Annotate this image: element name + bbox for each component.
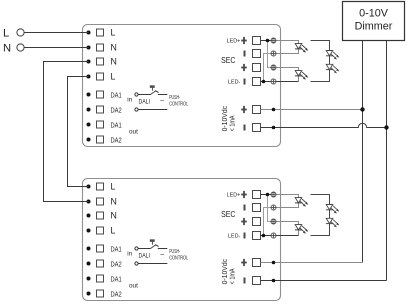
label 0-10Vdc &lt;1mA U2: [222, 258, 236, 284]
svg-text:out: out: [129, 128, 138, 135]
wire SEC- sense link U1: [264, 54, 272, 82]
terminal square SEC+ U1: [253, 64, 261, 72]
svg-text:DA2: DA2: [111, 259, 122, 268]
polarity marks LED/SEC/dim U2: [241, 191, 247, 284]
wire parallel LED string bottom stub U1: [311, 70, 330, 82]
terminal DA1 (left row 5) module U1: [87, 90, 122, 99]
output connector circle LED+ U2: [271, 192, 276, 197]
terminal DA1 (left row 7) module U1: [87, 120, 122, 129]
svg-text:DA2: DA2: [111, 289, 122, 298]
wire LED- connector to below chain B U2: [276, 235, 299, 237]
terminal square 0-10V - U1: [253, 124, 261, 132]
wire SEC+ connector to LED chain B U2: [276, 222, 299, 225]
terminal L (left row 4) module U1: [87, 72, 116, 82]
wire N input to module U1: [24, 47, 89, 49]
wire SEC+ sense link U2: [268, 195, 272, 222]
wire LED+ terminal to connector U1: [261, 40, 272, 42]
wire connector LED+ to LED chain A U2: [276, 195, 299, 198]
svg-text:DALI: DALI: [139, 98, 151, 105]
junction dot U2 dim+: [272, 261, 276, 265]
wire L input to module U1: [24, 32, 89, 34]
svg-text:L: L: [111, 28, 116, 38]
node L input circle: [17, 29, 24, 36]
0-10V dimmer box: [343, 2, 405, 41]
svg-text:DA1: DA1: [111, 90, 122, 99]
push-control switch S2 (DALI in): [135, 240, 167, 266]
svg-text:L: L: [111, 226, 116, 236]
output connector circle SEC- U1: [271, 51, 276, 56]
wire SEC+ connector to LED chain B U1: [276, 68, 299, 71]
svg-text:DA1: DA1: [111, 274, 122, 283]
wire parallel LED string top stub U1: [311, 41, 330, 51]
svg-text:N: N: [111, 197, 117, 207]
svg-text:LED-: LED-: [228, 80, 240, 86]
svg-text:< 1mA: < 1mA: [229, 115, 236, 131]
svg-text:PUSH-: PUSH-: [169, 249, 180, 255]
terminal L (left row 1) module U2: [87, 182, 116, 192]
svg-text:0-10Vdc: 0-10Vdc: [222, 105, 229, 131]
wire dimmer - bus (vertical): [386, 41, 388, 281]
svg-text:DA1: DA1: [111, 120, 122, 129]
label 0-10Vdc &lt;1mA U1: [222, 105, 236, 131]
junction dot dim- bus: [384, 125, 388, 129]
wire LED chain B cathode down to LED- wire U2: [298, 230, 300, 236]
terminal square LED+ U1: [253, 37, 261, 45]
svg-text:LED+: LED+: [227, 39, 241, 45]
polarity marks LED/SEC/dim U1: [241, 37, 247, 131]
junction dot U2 dim-: [272, 279, 276, 283]
wire L loop-through U1 to U2: [68, 77, 89, 187]
LED D14: [326, 64, 339, 73]
terminal N (left row 3) module U2: [87, 211, 117, 221]
wire between series LEDs U1: [329, 56, 331, 65]
svg-text:PUSH-: PUSH-: [169, 95, 180, 101]
terminal square LED+ U2: [253, 191, 261, 199]
svg-text:SEC: SEC: [221, 55, 235, 65]
terminal square LED- U1: [253, 78, 261, 86]
wire U1 0-10V- to dimmer bus (with crossover hop): [261, 123, 387, 127]
wire N loop-through U1 to U2: [44, 62, 89, 202]
LED D22: [295, 225, 308, 234]
terminal square SEC- U1: [253, 50, 261, 58]
junction dot dim+ bus: [360, 107, 364, 111]
svg-text:DA1: DA1: [111, 244, 122, 253]
svg-text:DA2: DA2: [111, 105, 122, 114]
terminal N (left row 2) module U2: [87, 197, 117, 207]
junction dot on LED- wire U1: [262, 80, 266, 84]
terminal L (left row 1) module U1: [87, 28, 116, 38]
svg-text:0-10Vdc: 0-10Vdc: [222, 258, 229, 284]
wire parallel LED string top stub U2: [311, 195, 330, 205]
svg-text:~: ~: [160, 250, 165, 259]
LED D13: [326, 51, 339, 60]
svg-text:L: L: [111, 72, 116, 82]
svg-text:LED-: LED-: [228, 234, 240, 240]
svg-text:DA2: DA2: [111, 135, 122, 144]
svg-text:N: N: [3, 43, 11, 55]
wire LED chain A cathode to SEC- connector U1: [276, 49, 299, 54]
wire SEC- sense link U2: [264, 208, 272, 236]
svg-text:N: N: [111, 57, 117, 67]
label 0-10V Dimmer: [355, 7, 393, 32]
wire LED- connector to below chain B U1: [276, 81, 299, 83]
svg-text:< 1mA: < 1mA: [229, 268, 236, 284]
svg-text:Dimmer: Dimmer: [355, 20, 393, 32]
junction dot on LED- wire U2: [262, 234, 266, 238]
label DALI in / push-control 1: [127, 95, 188, 107]
LED D23: [326, 205, 339, 214]
terminal square 0-10V + U1: [253, 106, 261, 114]
terminal L (left row 4) module U2: [87, 226, 116, 236]
svg-text:LED+: LED+: [227, 193, 241, 199]
LED D24: [326, 218, 339, 227]
wire U1 0-10V+ to dimmer bus: [261, 109, 363, 111]
svg-text:N: N: [111, 211, 117, 221]
output connector circle LED- U1: [271, 79, 276, 84]
terminal DA2 (left row 6) module U2: [87, 259, 122, 268]
terminal DA2 (left row 8) module U2: [87, 289, 122, 298]
svg-text:DALI: DALI: [139, 252, 151, 259]
wire LED chain A cathode to SEC- connector U2: [276, 203, 299, 208]
terminal square SEC+ U2: [253, 218, 261, 226]
junction dot U1 dim-: [272, 126, 276, 130]
wire LED+ terminal to connector U2: [261, 194, 272, 196]
terminal DA1 (left row 7) module U2: [87, 274, 122, 283]
svg-text:L: L: [3, 28, 9, 40]
svg-text:SEC: SEC: [221, 209, 235, 219]
svg-text:CONTROL: CONTROL: [169, 101, 188, 107]
junction dot on LED+ wire U2: [266, 193, 270, 197]
LED D21: [295, 198, 308, 207]
LED D12: [295, 71, 308, 80]
wire parallel LED string bottom stub U2: [311, 224, 330, 236]
output connector circle SEC+ U1: [271, 65, 276, 70]
svg-text:0-10V: 0-10V: [359, 7, 389, 19]
label DALI in / push-control 2: [127, 249, 188, 261]
wire between series LEDs U2: [329, 210, 331, 219]
output connector circle SEC+ U2: [271, 219, 276, 224]
node N input circle: [17, 44, 24, 51]
LED driver module U1 (box): [83, 25, 281, 147]
LED D11: [295, 44, 308, 53]
junction dot on LED+ wire U1: [266, 39, 270, 43]
svg-text:CONTROL: CONTROL: [169, 255, 188, 261]
svg-text:in: in: [127, 96, 132, 103]
wire U2 0-10V- to dimmer bus: [261, 280, 387, 282]
wire U2 0-10V+ to dimmer bus: [261, 262, 363, 264]
wire dimmer + bus (vertical): [362, 41, 364, 263]
terminal square 0-10V - U2: [253, 277, 261, 285]
wire connector LED+ to LED chain A U1: [276, 41, 299, 44]
terminal square LED- U2: [253, 232, 261, 240]
svg-text:N: N: [111, 43, 117, 53]
terminal DA2 (left row 8) module U1: [87, 135, 122, 144]
wire SEC+ sense link U1: [268, 41, 272, 68]
svg-text:L: L: [111, 182, 116, 192]
terminal square 0-10V + U2: [253, 259, 261, 267]
svg-text:in: in: [127, 250, 132, 257]
junction dot U1 dim+: [272, 108, 276, 112]
svg-text:~: ~: [160, 96, 165, 105]
terminal N (left row 2) module U1: [87, 43, 117, 53]
LED driver module U2 (box): [83, 179, 281, 301]
terminal DA2 (left row 6) module U1: [87, 105, 122, 114]
output connector circle LED+ U1: [271, 38, 276, 43]
wire LED- terminal to connector U2: [261, 235, 272, 237]
output connector circle LED- U2: [271, 233, 276, 238]
wire LED chain B cathode down to LED- wire U1: [298, 76, 300, 82]
terminal N (left row 3) module U1: [87, 57, 117, 67]
terminal DA1 (left row 5) module U2: [87, 244, 122, 253]
wire LED- terminal to connector U1: [261, 81, 272, 83]
push-control switch S1 (DALI in): [135, 86, 167, 112]
terminal square SEC- U2: [253, 204, 261, 212]
output connector circle SEC- U2: [271, 205, 276, 210]
svg-text:out: out: [129, 282, 138, 289]
